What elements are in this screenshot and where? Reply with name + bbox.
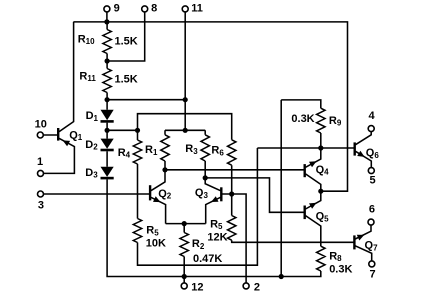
svg-text:R9: R9 xyxy=(329,115,342,128)
svg-text:8: 8 xyxy=(151,3,157,15)
svg-text:Q5: Q5 xyxy=(316,211,330,224)
svg-text:12: 12 xyxy=(191,281,203,293)
svg-text:R3: R3 xyxy=(185,143,198,156)
svg-text:0.3K: 0.3K xyxy=(291,113,314,125)
svg-text:Q1: Q1 xyxy=(69,129,83,142)
svg-text:5: 5 xyxy=(369,175,375,187)
svg-text:10: 10 xyxy=(35,119,47,131)
svg-text:0.3K: 0.3K xyxy=(329,263,352,275)
svg-text:3: 3 xyxy=(38,200,44,212)
svg-text:9: 9 xyxy=(114,3,120,15)
svg-text:Q2: Q2 xyxy=(158,188,172,201)
svg-text:R6: R6 xyxy=(211,145,224,158)
svg-text:Q7: Q7 xyxy=(365,240,379,253)
svg-text:1.5K: 1.5K xyxy=(115,36,138,48)
svg-text:R8: R8 xyxy=(329,250,342,263)
svg-text:R5: R5 xyxy=(146,225,159,238)
svg-text:4: 4 xyxy=(368,110,375,122)
svg-text:2: 2 xyxy=(254,281,260,293)
svg-text:7: 7 xyxy=(369,269,375,281)
svg-text:R10: R10 xyxy=(78,33,95,46)
svg-text:10K: 10K xyxy=(146,237,166,249)
svg-text:1: 1 xyxy=(37,156,43,168)
svg-text:0.47K: 0.47K xyxy=(193,253,222,265)
svg-text:R11: R11 xyxy=(79,70,96,83)
svg-text:11: 11 xyxy=(191,3,203,15)
svg-text:12K: 12K xyxy=(207,232,227,244)
svg-text:R5: R5 xyxy=(210,218,223,231)
svg-text:Q4: Q4 xyxy=(316,164,330,177)
svg-text:R4: R4 xyxy=(118,147,131,160)
svg-text:R1: R1 xyxy=(145,144,158,157)
svg-text:D2: D2 xyxy=(85,139,98,152)
svg-text:6: 6 xyxy=(369,204,375,216)
svg-text:Q3: Q3 xyxy=(195,187,209,200)
svg-text:1.5K: 1.5K xyxy=(115,74,138,86)
svg-text:Q6: Q6 xyxy=(366,147,380,160)
svg-text:D1: D1 xyxy=(86,110,99,123)
svg-text:D3: D3 xyxy=(85,167,98,180)
svg-text:R2: R2 xyxy=(192,238,205,251)
